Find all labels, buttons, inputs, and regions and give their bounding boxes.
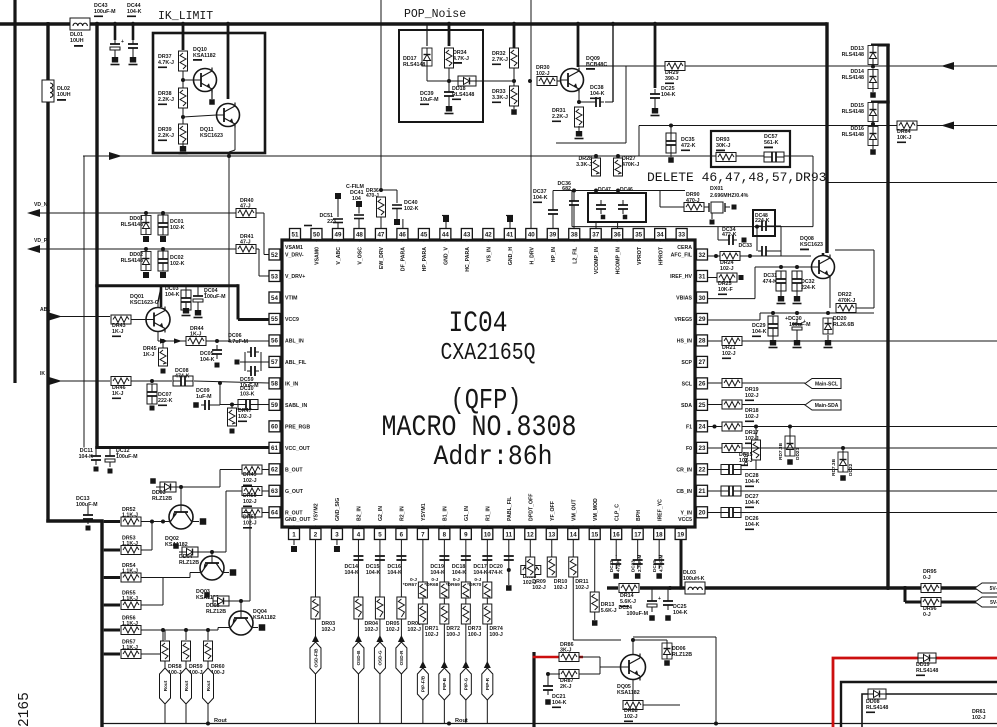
transistor DQ05 (617, 654, 646, 697)
svg-text:223: 223 (327, 219, 336, 225)
wire DR49 left (220, 469, 242, 471)
resistor DR36 (366, 188, 386, 217)
svg-text:18: 18 (656, 531, 663, 538)
wire bottom supply bus (640, 586, 977, 589)
svg-text:102-K: 102-K (404, 206, 419, 212)
pin 13 YF_OFF (546, 501, 557, 539)
wire pin64 row (262, 512, 269, 514)
wire ABL_IN row (158, 340, 269, 342)
ground DQ03 right (230, 569, 237, 576)
wire DR86 right (579, 656, 600, 658)
wire DQ09 emitter (578, 90, 580, 102)
svg-text:222-K: 222-K (158, 398, 173, 404)
pin 58 IK_IN (269, 378, 299, 389)
svg-text:100-J: 100-J (489, 632, 503, 638)
junction DR27 top (616, 154, 620, 158)
tick pin51 (304, 225, 312, 227)
svg-text:PRE_RGB: PRE_RGB (285, 424, 310, 430)
capacitor DC58 (652, 554, 664, 572)
svg-text:4.7uF-M: 4.7uF-M (659, 554, 664, 572)
flag OSD-B (353, 635, 364, 674)
resistor DR43 (111, 315, 131, 337)
svg-text:38: 38 (571, 231, 578, 238)
wire DR37-DR38 (182, 71, 184, 88)
diode DD01 (121, 216, 151, 235)
svg-text:470-J: 470-J (686, 198, 700, 204)
ground DC04 (194, 305, 203, 318)
junction DD22 top (841, 446, 845, 450)
junction DC34 right (742, 238, 747, 243)
svg-text:24: 24 (699, 424, 706, 431)
wire DQ05 base (600, 666, 621, 668)
transistor DQ04 (229, 609, 276, 635)
pin 51 corner (290, 229, 301, 242)
wire DR88 right (643, 704, 680, 706)
junction DD20 top (826, 311, 830, 315)
svg-text:61: 61 (271, 445, 278, 452)
wire pin21 CB_IN (708, 490, 997, 492)
svg-text:470-J: 470-J (366, 193, 379, 199)
wire DC35 gnd (670, 153, 672, 157)
svg-text:100uF-M: 100uF-M (204, 294, 226, 300)
junction bus x514 (512, 22, 516, 26)
svg-text:IK_IN: IK_IN (285, 381, 299, 387)
svg-text:0-J: 0-J (431, 577, 438, 583)
wire vertical to pin47 (380, 0, 382, 190)
pin 20 Y_IN (680, 507, 707, 518)
ground DD01 (143, 236, 149, 242)
pin 6 R2_IN (396, 506, 407, 539)
svg-text:AFC_FIL: AFC_FIL (671, 253, 693, 259)
svg-text:5.6K-J: 5.6K-J (601, 608, 617, 614)
svg-text:GND_V: GND_V (444, 246, 450, 264)
wire pin53 link (259, 275, 269, 277)
capacitor DC15 (366, 556, 385, 576)
svg-text:474-K: 474-K (488, 570, 503, 576)
svg-text:51: 51 (292, 231, 299, 238)
pin 57 ABL_FIL (269, 356, 307, 367)
diode DD19 (916, 653, 938, 676)
wire DC24 top (651, 588, 653, 598)
diode DD18 (452, 76, 476, 100)
wire flag lead (164, 661, 166, 668)
wire pin53 drop (258, 249, 260, 276)
diode DD05 (206, 596, 229, 615)
ground DD21 (787, 459, 793, 465)
svg-text:B2_IN: B2_IN (357, 506, 363, 521)
wire DR51 drop (249, 513, 251, 602)
flag Rout (160, 668, 171, 704)
svg-text:RLZ12B: RLZ12B (179, 560, 199, 566)
pin 54 VTIM (269, 292, 297, 303)
wire DD22 top (842, 448, 844, 452)
svg-text:100uH-K: 100uH-K (683, 576, 705, 582)
pin 45 HP_PARA (418, 229, 429, 272)
svg-text:SCL: SCL (682, 381, 693, 387)
resistor DR04 (354, 597, 378, 633)
junction pin32 a (714, 254, 718, 258)
capacitor DC40 (392, 190, 419, 225)
wire DQ03 right (224, 572, 229, 574)
pin 60 PRE_RGB (269, 421, 310, 432)
wire diode bracket top (871, 44, 890, 47)
junction DQ11 emitter (227, 154, 231, 158)
svg-text:R2_IN: R2_IN (400, 506, 406, 521)
resistor DR05 (375, 597, 399, 633)
wire pin26 SCL (708, 382, 806, 384)
wire pin62 row (262, 469, 269, 471)
resistor DR96 (921, 598, 941, 618)
capacitor DC33 (738, 243, 770, 256)
resistor DR17 (722, 422, 759, 444)
ground pin11 (506, 585, 512, 591)
capacitor DC04 (193, 288, 226, 307)
resistor DR22 (836, 292, 856, 313)
svg-text:2K-J: 2K-J (560, 684, 572, 690)
wire DQ09 emitter to DC38 (579, 101, 592, 103)
capacitor DC25 (663, 596, 688, 616)
ground DD02 (143, 272, 149, 278)
capacitor DC30 (785, 316, 811, 335)
capacitor DC43 (94, 3, 124, 65)
wire pin52 link (264, 254, 269, 256)
capacitor DC37 (533, 189, 558, 219)
wire net y190 (553, 190, 685, 192)
pin 17 BPH (632, 510, 643, 540)
capacitor DC03 (165, 286, 191, 310)
svg-text:Y_IN: Y_IN (680, 510, 692, 516)
svg-text:12: 12 (527, 531, 534, 538)
ground DX01 (710, 220, 715, 225)
junction DX01 right (732, 205, 737, 210)
wire DC33 right (770, 250, 781, 252)
wire DC46 to pin36 (617, 222, 619, 229)
svg-text:5.6K-J: 5.6K-J (620, 599, 636, 605)
svg-text:58: 58 (271, 381, 278, 388)
pin 37 VCOMP_IN (590, 229, 601, 275)
pin 5 G2_IN (374, 506, 385, 540)
junction DQ03 collector (210, 550, 214, 554)
svg-text:6: 6 (400, 531, 404, 538)
svg-text:B1_IN: B1_IN (443, 506, 449, 521)
wire DC11 top (95, 449, 97, 453)
diode DD16 (842, 126, 878, 146)
svg-text:BPH: BPH (636, 510, 642, 521)
pin 10 R1_IN (482, 506, 493, 539)
pin 52 V_DRV- (269, 249, 304, 260)
svg-text:KSC1623: KSC1623 (200, 133, 223, 139)
svg-text:27: 27 (699, 359, 706, 366)
wire bus to DQ08 (822, 253, 825, 256)
DC47 DC46 block box (588, 193, 646, 222)
pin 3 GND_SIG (331, 498, 342, 540)
ground DC47 (601, 215, 606, 220)
pin 43 HC_PARA (461, 229, 472, 272)
junction DR28 top (594, 154, 598, 158)
junction DR38 base (181, 115, 185, 119)
resistor DR14 (619, 584, 639, 608)
wire DC35 top (670, 126, 672, 134)
pin 27 SCP (681, 356, 707, 367)
wire stub DR56 (104, 629, 120, 632)
svg-text:23: 23 (699, 445, 706, 452)
svg-text:3.3K-J: 3.3K-J (492, 95, 508, 101)
svg-text:102-J: 102-J (554, 585, 568, 591)
junction DC30 top (795, 311, 799, 315)
svg-text:HPROT: HPROT (658, 246, 664, 265)
resistor DR90 (684, 192, 704, 212)
resistor DR44 (186, 326, 206, 346)
svg-text:31: 31 (699, 273, 706, 280)
IK_LIMIT block box (153, 33, 265, 153)
diode DD22 zener (831, 452, 854, 476)
capacitor DC28 (721, 465, 760, 488)
svg-text:102-J: 102-J (532, 585, 546, 591)
wire DC38 right (605, 101, 613, 103)
resistor DR31 (552, 107, 584, 127)
svg-text:VSAM1: VSAM1 (285, 245, 303, 251)
wire DR22 up (873, 250, 875, 308)
svg-text:472-K: 472-K (616, 559, 621, 572)
transistor DQ02 (165, 505, 193, 548)
capacitor DC12 (105, 448, 138, 467)
svg-text:DD21: DD21 (795, 447, 801, 460)
svg-text:104-K: 104-K (79, 454, 94, 460)
pin 61 VCC_OUT (269, 442, 311, 453)
wire pin6 bottom (400, 674, 402, 724)
wire pin30 VBIAS (708, 298, 756, 300)
wire DR36 to pin47 (380, 217, 382, 229)
port VD_N (27, 202, 48, 217)
svg-text:16: 16 (613, 531, 620, 538)
svg-text:CB_IN: CB_IN (676, 489, 692, 495)
pin 33 corner (676, 229, 687, 242)
wire DR90 left (660, 206, 684, 208)
svg-text:1.1K-J: 1.1K-J (122, 645, 138, 651)
svg-text:L2_FIL: L2_FIL (572, 246, 578, 264)
wire pin11 down (508, 540, 510, 586)
svg-text:25: 25 (699, 402, 706, 409)
svg-text:YSYM1: YSYM1 (421, 503, 427, 521)
ground DD16 (870, 149, 876, 155)
wire bus to DR32 (513, 22, 516, 48)
pin 38 L2_FIL (569, 229, 580, 264)
wire VCC9 feed down (237, 284, 240, 319)
capacitor DC59 (240, 366, 259, 389)
svg-text:HCOMP_IN: HCOMP_IN (615, 247, 621, 275)
wire net y226 (572, 226, 813, 228)
svg-text:104-K: 104-K (745, 522, 760, 528)
DC48 block box (753, 210, 775, 236)
port ABL (40, 307, 62, 321)
wire DC04 top (197, 287, 199, 291)
pin 24 F1 (686, 421, 708, 432)
wire DQ04 base path (141, 628, 229, 631)
wire DD04 right (198, 551, 226, 553)
svg-text:VCC9: VCC9 (285, 317, 299, 323)
wire vertical x229 (228, 152, 230, 341)
IC04 MACRO NO.8308 (382, 411, 577, 445)
capacitor DC41 (346, 184, 365, 229)
wire DC37 up (552, 191, 554, 206)
svg-text:V_DRV+: V_DRV+ (285, 274, 305, 280)
junction DC07 top (150, 379, 154, 383)
svg-text:64: 64 (271, 510, 278, 517)
ground DC24 (649, 615, 655, 621)
resistor DR86 (559, 642, 579, 662)
capacitor DC23 (631, 554, 643, 572)
wire DC48 net (780, 226, 782, 256)
resistor DR40 (236, 198, 256, 218)
svg-text:IREF_HV: IREF_HV (670, 274, 692, 280)
svg-text:2: 2 (314, 531, 318, 538)
resistor DR72 (440, 604, 460, 638)
wire DR47 top (231, 405, 233, 409)
resistor DR27 (614, 156, 640, 176)
wire collector to riser (578, 65, 626, 67)
junction DQ09 emitter (577, 100, 581, 104)
arrow net y125 (941, 122, 954, 130)
wire pin23 F0 (708, 447, 997, 449)
ground GND_V pin44 (442, 216, 449, 229)
capacitor DC16 (387, 556, 406, 576)
svg-text:11: 11 (506, 531, 513, 538)
wire DR90-DX01 (703, 206, 705, 208)
pin 8 B1_IN (439, 506, 450, 539)
junction DR25 right (739, 275, 744, 280)
wire base riser (599, 657, 601, 667)
svg-text:47-J: 47-J (240, 240, 251, 246)
svg-text:DC33: DC33 (738, 243, 752, 249)
svg-text:36: 36 (614, 231, 621, 238)
capacitor DC11 (79, 448, 101, 465)
svg-text:SDA: SDA (681, 403, 692, 409)
svg-text:+: + (658, 596, 661, 602)
pin 16 CLP_C (611, 504, 622, 540)
svg-text:4.7uF-M: 4.7uF-M (228, 339, 249, 345)
svg-text:4: 4 (357, 531, 361, 538)
svg-text:40: 40 (528, 231, 535, 238)
svg-text:DD22: DD22 (848, 463, 854, 476)
svg-text:104-K: 104-K (473, 570, 488, 576)
svg-text:102-J: 102-J (364, 627, 378, 633)
svg-text:R_OUT: R_OUT (285, 510, 303, 516)
transistor DQ09 (561, 56, 608, 93)
pin 44 GND_V (440, 229, 451, 265)
wire DC48-DC33 left (756, 226, 758, 251)
wire pin8 bottom (443, 700, 445, 724)
ground DD06 (664, 660, 670, 666)
capacitor DC14 (344, 556, 363, 576)
svg-text:1uF-M: 1uF-M (196, 394, 212, 400)
wire bus jog bottom left (46, 519, 103, 522)
svg-text:104-K: 104-K (552, 700, 567, 706)
wire DR55 link (141, 578, 163, 606)
DELETE note box (711, 131, 790, 167)
resistor DR47 (228, 408, 252, 426)
resistor DR13 (590, 592, 616, 614)
label DR59 (189, 664, 203, 676)
wire ecap mid (240, 361, 245, 363)
pin 11 PABL_FIL (503, 496, 514, 540)
wire DR57 link (141, 630, 163, 654)
junction DQ04 collector (239, 599, 243, 603)
ground DQ10 emitter (209, 99, 215, 105)
junction DQ02 a (150, 520, 154, 524)
pin 49 V_ABC (332, 229, 343, 265)
resistor DR49 (242, 465, 262, 486)
svg-text:VBIAS: VBIAS (676, 295, 692, 301)
wire DD06 top (666, 640, 668, 643)
ground DC13 (86, 526, 91, 531)
svg-text:102-J: 102-J (720, 266, 734, 272)
wire DD17-DD18 link (427, 80, 458, 82)
svg-text:BCB48C: BCB48C (586, 62, 607, 68)
flag PIP-R (482, 661, 493, 700)
capacitor DC21 (543, 681, 567, 708)
svg-text:RLZ12B: RLZ12B (152, 496, 172, 502)
wire pin7 down (422, 540, 424, 663)
junction DQ05 collector (631, 638, 635, 642)
svg-text:HC_PARA: HC_PARA (465, 247, 471, 272)
svg-text:SCP: SCP (681, 360, 692, 366)
pin 64 R_OUT (269, 507, 303, 518)
capacitor DC06 (228, 333, 259, 357)
svg-text:VSAM0: VSAM0 (315, 247, 321, 265)
svg-text:F1: F1 (686, 424, 692, 430)
wire DC34 left (718, 239, 725, 241)
svg-text:1.1K-J: 1.1K-J (122, 621, 138, 627)
svg-text:CERA: CERA (677, 245, 692, 251)
wire pin16 down (615, 540, 617, 557)
junction DR28 bottom (594, 189, 598, 193)
flag OSD-G (374, 635, 385, 674)
resistor DR33 (492, 86, 519, 106)
wire left vertical net (13, 0, 16, 383)
svg-text:100-J: 100-J (468, 632, 482, 638)
svg-text:RLS4148: RLS4148 (842, 75, 864, 81)
svg-text:MACRO NO.8308: MACRO NO.8308 (382, 411, 577, 445)
pin 46 DF_PARA (397, 229, 408, 272)
svg-text:34: 34 (657, 231, 664, 238)
svg-text:48: 48 (356, 231, 363, 238)
wire net y125 (639, 125, 997, 127)
svg-text:KSA1182: KSA1182 (253, 615, 276, 621)
pin 23 F0 (686, 442, 708, 453)
wire second left vertical bus (46, 22, 49, 522)
svg-text:F0: F0 (686, 446, 692, 452)
svg-text:IK: IK (40, 371, 45, 377)
capacitor DC46 (618, 187, 633, 214)
capacitor DC24 (618, 596, 661, 617)
svg-text:104-K: 104-K (344, 570, 359, 576)
wire DC47 to pin37 (595, 222, 597, 229)
resistor DR70 (467, 577, 492, 598)
svg-text:5V-M: 5V-M (990, 586, 997, 592)
wire black outer corner (841, 682, 997, 727)
capacitor DC17 (473, 556, 492, 576)
wire DC12 top (109, 449, 111, 453)
svg-text:10: 10 (484, 531, 491, 538)
svg-text:DC46: DC46 (620, 187, 633, 193)
svg-text:ABL: ABL (40, 307, 50, 313)
ground DD22 (840, 475, 846, 481)
wire DC37 to pin39 (552, 219, 554, 229)
wire pin10 bottom (486, 700, 488, 724)
svg-text:100-J: 100-J (446, 632, 460, 638)
wire DD14 gnd (872, 89, 874, 93)
svg-text:474-K: 474-K (175, 374, 190, 380)
